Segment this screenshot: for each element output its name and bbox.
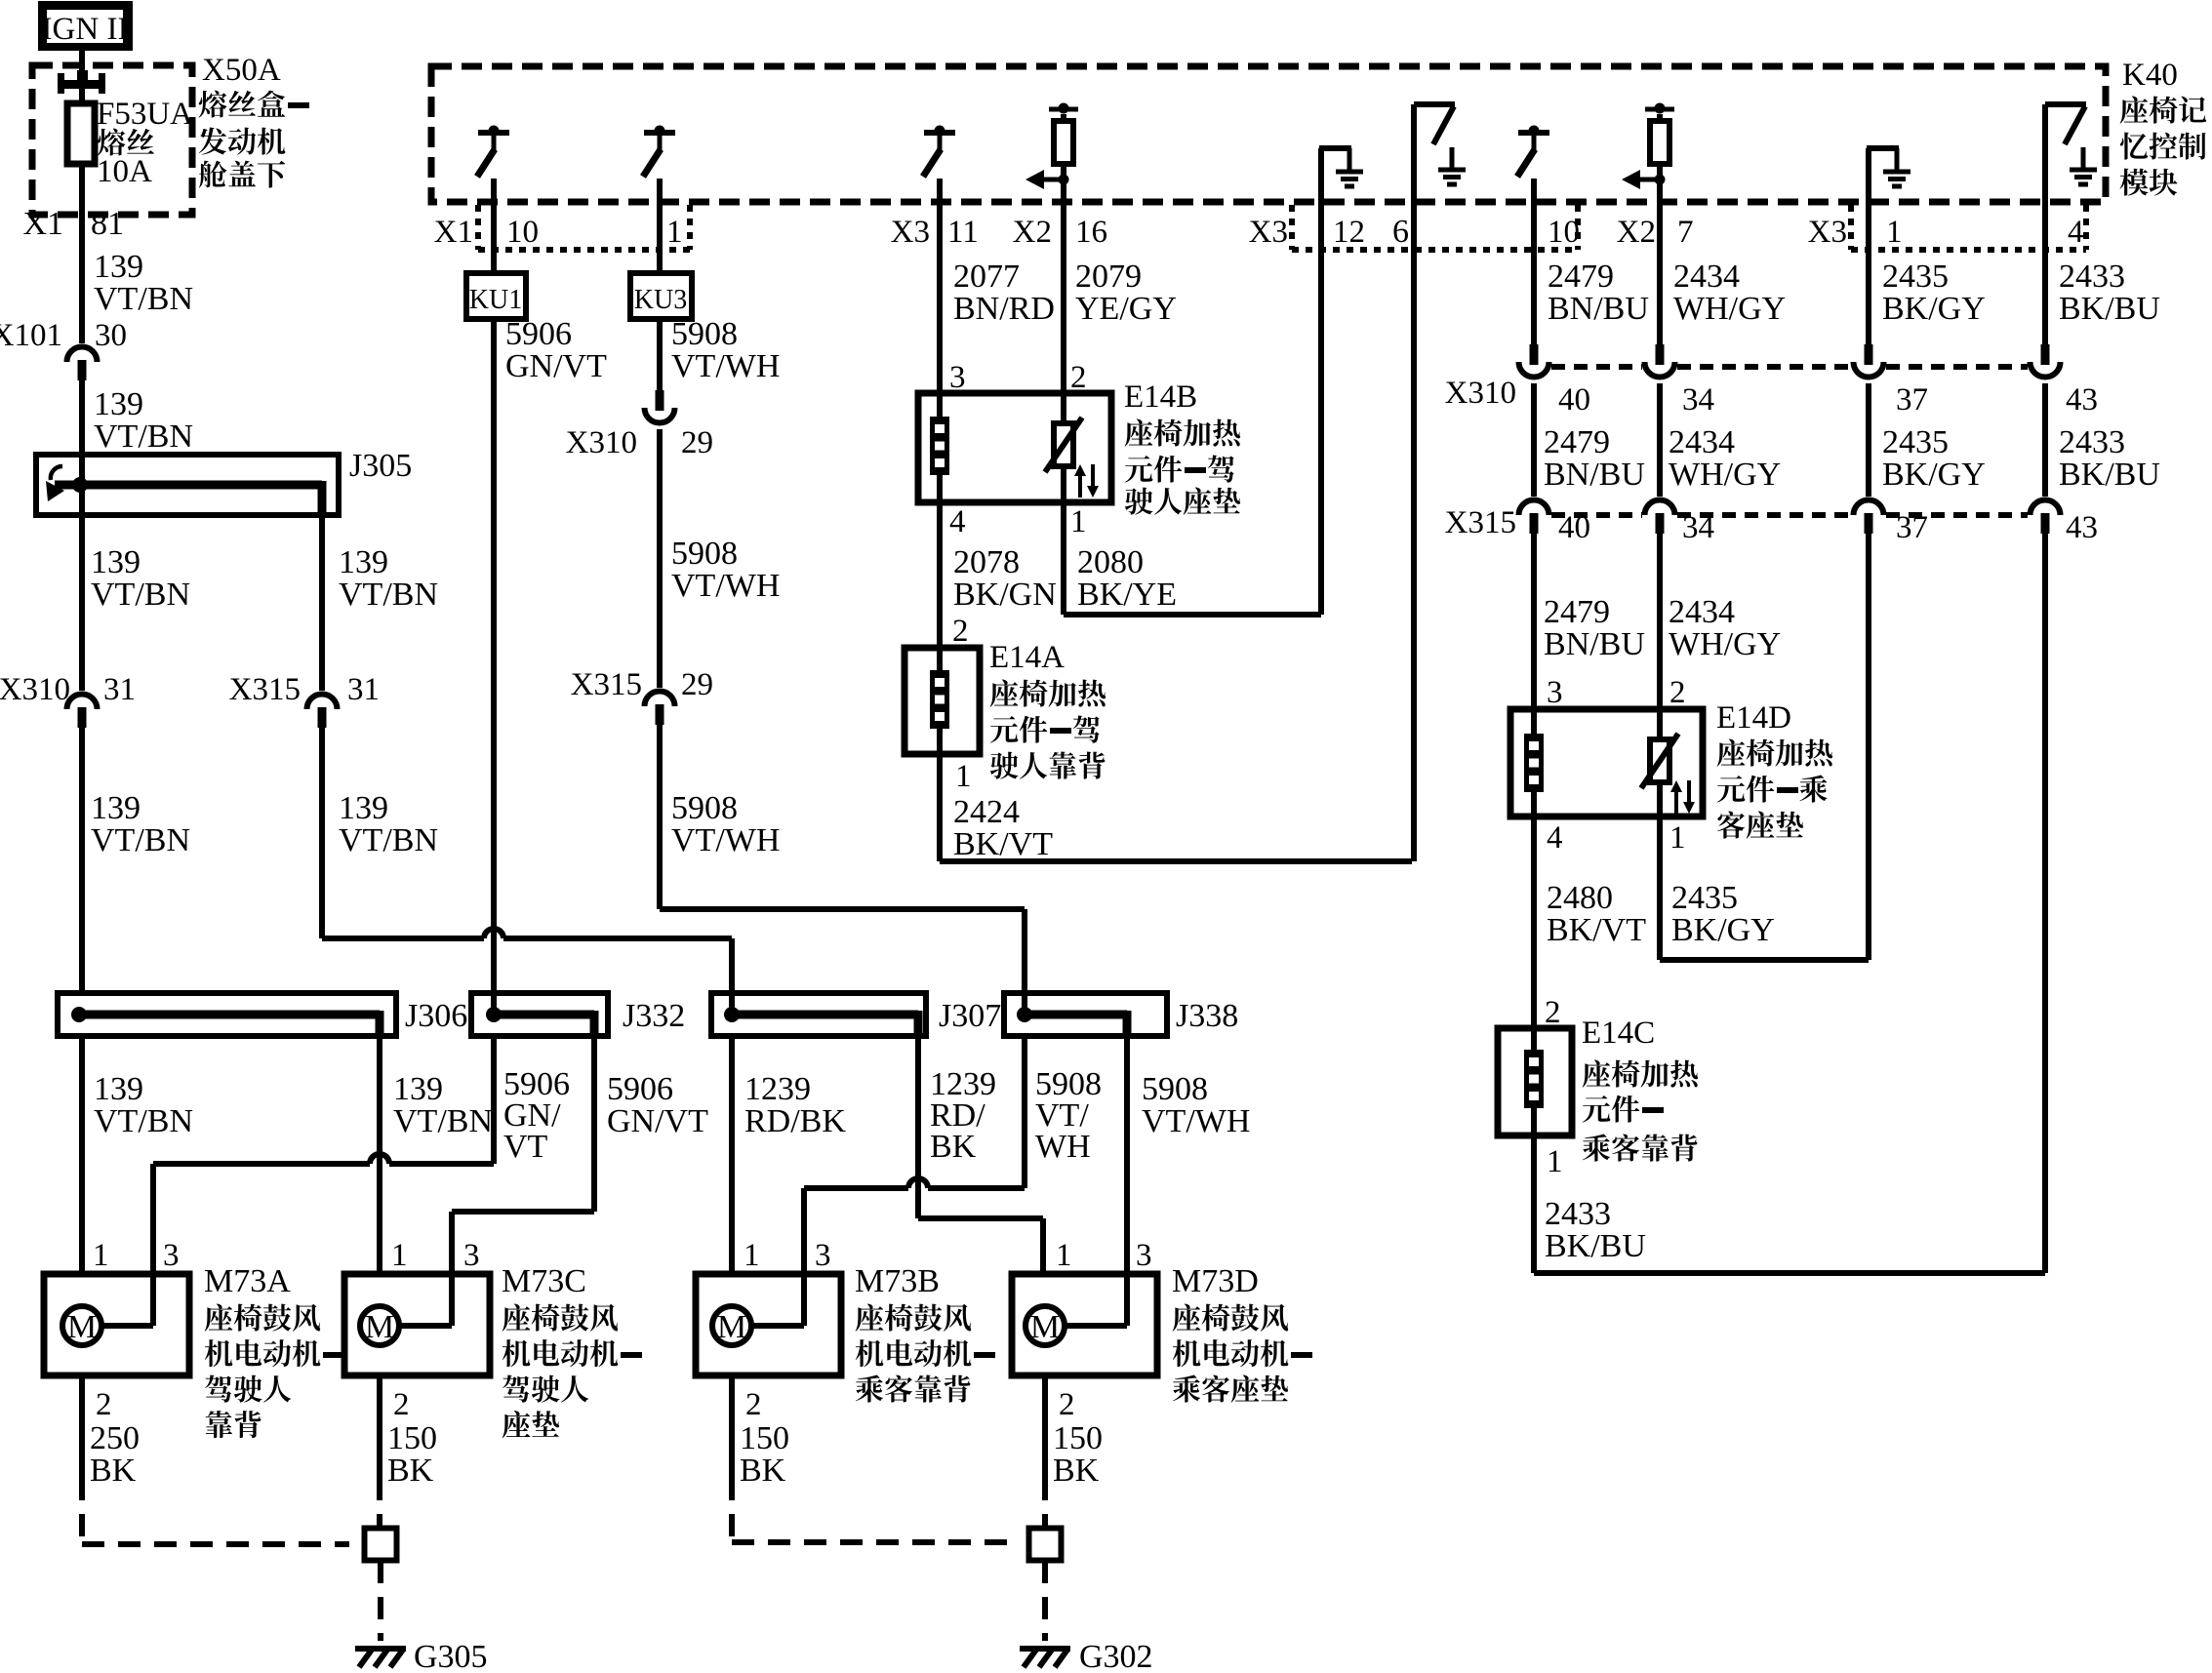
svg-text:2079: 2079 <box>1075 259 1142 295</box>
svg-text:10A: 10A <box>97 154 152 189</box>
svg-text:X3: X3 <box>891 215 930 250</box>
svg-text:2434: 2434 <box>1669 424 1735 460</box>
svg-text:E14A: E14A <box>989 640 1065 675</box>
svg-text:10: 10 <box>1548 215 1580 250</box>
svg-text:150: 150 <box>1053 1420 1103 1456</box>
svg-text:J306: J306 <box>405 998 467 1034</box>
svg-text:VT/BN: VT/BN <box>94 281 193 317</box>
svg-text:VT/WH: VT/WH <box>671 822 780 858</box>
svg-text:J332: J332 <box>623 998 685 1034</box>
svg-text:E14C: E14C <box>1582 1016 1655 1051</box>
svg-text:1: 1 <box>1056 1238 1072 1273</box>
svg-text:2435: 2435 <box>1882 424 1949 460</box>
svg-text:YE/GY: YE/GY <box>1075 291 1177 327</box>
svg-text:X2: X2 <box>1617 215 1656 250</box>
svg-text:10: 10 <box>506 215 539 250</box>
svg-text:5906: 5906 <box>505 316 572 352</box>
svg-text:BK/GY: BK/GY <box>1882 291 1986 327</box>
svg-text:X1: X1 <box>22 206 63 242</box>
svg-text:GN/VT: GN/VT <box>607 1103 708 1139</box>
svg-text:5906: 5906 <box>607 1071 673 1107</box>
svg-text:2077: 2077 <box>953 259 1020 295</box>
svg-text:2480: 2480 <box>1547 880 1613 916</box>
svg-text:M73C: M73C <box>502 1263 586 1299</box>
svg-text:1: 1 <box>955 759 972 794</box>
svg-text:2435: 2435 <box>1671 880 1738 916</box>
svg-text:5908: 5908 <box>1142 1071 1208 1107</box>
svg-text:6: 6 <box>1392 214 1409 250</box>
svg-text:2078: 2078 <box>953 544 1020 580</box>
svg-text:2433: 2433 <box>2059 259 2125 295</box>
svg-text:7: 7 <box>1677 215 1694 250</box>
svg-text:K40: K40 <box>2122 58 2178 93</box>
svg-text:2434: 2434 <box>1673 259 1740 295</box>
svg-text:2479: 2479 <box>1548 259 1614 295</box>
svg-text:G302: G302 <box>1079 1639 1153 1673</box>
svg-text:KU3: KU3 <box>634 285 687 315</box>
svg-text:X315: X315 <box>229 672 301 707</box>
svg-text:BK/BU: BK/BU <box>2059 291 2160 327</box>
svg-text:2479: 2479 <box>1544 424 1610 460</box>
svg-text:5908: 5908 <box>671 316 738 352</box>
svg-text:BN/BU: BN/BU <box>1548 291 1649 327</box>
svg-text:X310: X310 <box>1445 376 1516 411</box>
svg-text:1: 1 <box>666 215 683 250</box>
svg-text:16: 16 <box>1075 215 1107 250</box>
svg-text:1: 1 <box>391 1238 408 1273</box>
svg-text:X310: X310 <box>0 672 70 707</box>
svg-text:BK/GN: BK/GN <box>953 577 1057 613</box>
svg-text:37: 37 <box>1896 382 1928 418</box>
svg-text:X3: X3 <box>1249 215 1288 250</box>
svg-text:BK/GY: BK/GY <box>1882 457 1986 493</box>
svg-text:2: 2 <box>96 1387 112 1422</box>
svg-text:E14D: E14D <box>1716 700 1791 736</box>
svg-text:250: 250 <box>90 1420 140 1456</box>
svg-text:2: 2 <box>952 614 969 649</box>
svg-text:5908: 5908 <box>671 790 738 826</box>
svg-text:BK/BU: BK/BU <box>2059 457 2160 493</box>
svg-text:11: 11 <box>947 215 979 250</box>
svg-text:X3: X3 <box>1808 215 1847 250</box>
svg-text:1: 1 <box>1886 215 1903 250</box>
svg-text:BN/BU: BN/BU <box>1544 626 1645 662</box>
svg-text:139: 139 <box>339 790 388 826</box>
svg-text:2424: 2424 <box>953 794 1020 830</box>
svg-text:BK/GY: BK/GY <box>1671 912 1775 948</box>
svg-text:139: 139 <box>91 544 141 580</box>
svg-text:43: 43 <box>2066 510 2098 545</box>
svg-text:J305: J305 <box>349 448 412 484</box>
svg-text:1: 1 <box>1070 504 1087 539</box>
svg-text:E14B: E14B <box>1124 379 1197 415</box>
svg-text:139: 139 <box>94 1071 143 1107</box>
svg-text:GN/VT: GN/VT <box>505 348 607 384</box>
svg-text:3: 3 <box>163 1238 180 1273</box>
svg-text:40: 40 <box>1558 382 1590 418</box>
svg-text:1: 1 <box>93 1238 109 1273</box>
svg-text:2: 2 <box>745 1387 762 1422</box>
svg-text:139: 139 <box>94 249 143 285</box>
svg-text:3: 3 <box>815 1238 831 1273</box>
svg-text:BK: BK <box>740 1453 786 1489</box>
svg-text:J307: J307 <box>939 998 1001 1034</box>
svg-text:M: M <box>717 1309 746 1345</box>
svg-text:X2: X2 <box>1013 215 1052 250</box>
svg-text:29: 29 <box>681 425 713 460</box>
svg-text:30: 30 <box>95 318 127 353</box>
svg-text:BK: BK <box>1053 1453 1100 1489</box>
svg-text:139: 139 <box>94 386 143 422</box>
svg-text:KU1: KU1 <box>469 285 522 315</box>
svg-text:31: 31 <box>103 672 136 707</box>
svg-text:BK: BK <box>90 1453 137 1489</box>
svg-text:VT/WH: VT/WH <box>671 348 780 384</box>
svg-text:J338: J338 <box>1176 998 1238 1034</box>
svg-text:4: 4 <box>1547 820 1563 856</box>
svg-text:BK: BK <box>387 1453 434 1489</box>
svg-text:X1: X1 <box>434 215 473 250</box>
svg-text:M: M <box>67 1309 97 1345</box>
svg-text:1: 1 <box>1669 820 1686 856</box>
svg-text:BK/VT: BK/VT <box>1547 912 1646 948</box>
svg-text:VT: VT <box>503 1129 548 1165</box>
svg-text:VT/BN: VT/BN <box>94 1103 193 1139</box>
svg-text:139: 139 <box>393 1071 443 1107</box>
svg-text:BN/BU: BN/BU <box>1544 457 1645 493</box>
svg-text:81: 81 <box>91 206 124 242</box>
svg-text:3: 3 <box>463 1238 480 1273</box>
svg-text:X50A: X50A <box>202 53 281 88</box>
svg-text:BN/RD: BN/RD <box>953 291 1055 327</box>
svg-text:BK: BK <box>930 1129 977 1165</box>
svg-text:VT/BN: VT/BN <box>91 822 190 858</box>
svg-text:34: 34 <box>1682 382 1714 418</box>
svg-text:M73D: M73D <box>1172 1263 1259 1299</box>
svg-text:2: 2 <box>393 1387 410 1422</box>
svg-text:M73A: M73A <box>204 1263 291 1299</box>
svg-text:1: 1 <box>744 1238 760 1273</box>
svg-text:2435: 2435 <box>1882 259 1949 295</box>
svg-text:M73B: M73B <box>855 1263 940 1299</box>
svg-text:139: 139 <box>91 790 141 826</box>
svg-text:F53UA: F53UA <box>97 97 193 132</box>
svg-text:2433: 2433 <box>1545 1196 1611 1232</box>
svg-text:43: 43 <box>2066 382 2098 418</box>
svg-text:VT/BN: VT/BN <box>94 418 193 455</box>
svg-text:2433: 2433 <box>2059 424 2125 460</box>
svg-text:3: 3 <box>1547 675 1563 710</box>
svg-text:VT/BN: VT/BN <box>91 577 190 613</box>
svg-text:VT/WH: VT/WH <box>1142 1103 1250 1139</box>
svg-text:1: 1 <box>1547 1144 1563 1179</box>
svg-text:31: 31 <box>347 672 380 707</box>
svg-text:4: 4 <box>949 504 966 539</box>
svg-text:VT/BN: VT/BN <box>339 577 438 613</box>
svg-text:2080: 2080 <box>1077 544 1144 580</box>
svg-text:2: 2 <box>1059 1387 1075 1422</box>
svg-text:5908: 5908 <box>671 536 738 572</box>
svg-text:1239: 1239 <box>744 1071 811 1107</box>
svg-text:139: 139 <box>339 544 388 580</box>
svg-text:12: 12 <box>1333 215 1365 250</box>
svg-text:WH/GY: WH/GY <box>1669 626 1781 662</box>
svg-text:150: 150 <box>740 1420 789 1456</box>
svg-text:WH: WH <box>1035 1129 1091 1165</box>
svg-text:BK/BU: BK/BU <box>1545 1228 1646 1264</box>
svg-text:2: 2 <box>1669 675 1686 710</box>
svg-text:150: 150 <box>387 1420 437 1456</box>
svg-text:4: 4 <box>2068 215 2084 250</box>
svg-text:BK/VT: BK/VT <box>953 826 1053 862</box>
svg-text:WH/GY: WH/GY <box>1673 291 1786 327</box>
svg-text:BK/YE: BK/YE <box>1077 577 1177 613</box>
svg-text:3: 3 <box>1136 1238 1152 1273</box>
svg-text:VT/WH: VT/WH <box>671 568 780 604</box>
svg-text:VT/BN: VT/BN <box>393 1103 493 1139</box>
svg-text:X315: X315 <box>571 667 642 702</box>
svg-text:VT/BN: VT/BN <box>339 822 438 858</box>
svg-text:2434: 2434 <box>1669 594 1735 630</box>
svg-text:WH/GY: WH/GY <box>1669 457 1781 493</box>
svg-text:IGN II: IGN II <box>42 12 129 47</box>
svg-text:2479: 2479 <box>1544 594 1610 630</box>
svg-text:M: M <box>1030 1309 1060 1345</box>
svg-text:G305: G305 <box>414 1639 488 1673</box>
svg-text:29: 29 <box>681 667 713 702</box>
svg-text:X310: X310 <box>566 425 637 460</box>
svg-text:RD/BK: RD/BK <box>744 1103 846 1139</box>
svg-text:X315: X315 <box>1445 505 1516 540</box>
svg-text:M: M <box>365 1309 394 1345</box>
svg-text:X101: X101 <box>0 318 62 353</box>
